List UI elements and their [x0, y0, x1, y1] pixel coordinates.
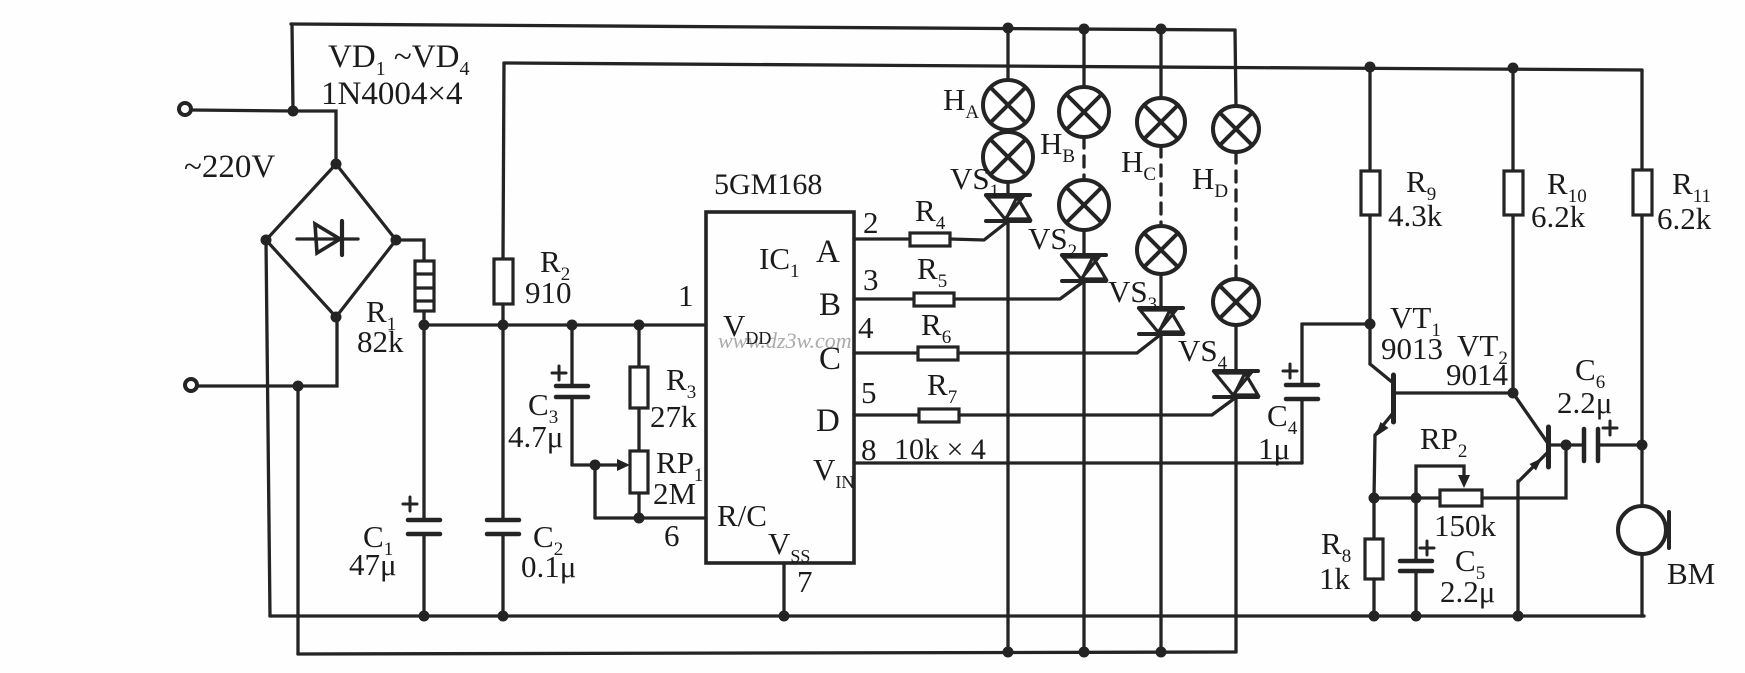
triac VS3	[1139, 308, 1183, 334]
lamp HB upper	[1059, 87, 1109, 137]
svg-text:7: 7	[797, 564, 813, 599]
node C5 / RP2 wiper	[1411, 493, 1422, 504]
svg-text:C: C	[819, 341, 841, 377]
node top rail lamp column C	[1156, 24, 1167, 35]
wire dashed lamp HB string	[1082, 137, 1085, 180]
wire top AC rail	[291, 24, 1235, 30]
svg-text:9013: 9013	[1381, 331, 1443, 366]
svg-text:6.2k: 6.2k	[1531, 199, 1586, 234]
wire VS3 column down to AC rail	[1159, 334, 1162, 652]
svg-text:4.7μ: 4.7μ	[508, 419, 563, 454]
wire lamp column B top	[1082, 29, 1085, 88]
wire IC pin8 VIN to C4	[854, 461, 1302, 464]
node wiper junction	[590, 460, 601, 471]
svg-text:1N4004×4: 1N4004×4	[321, 76, 462, 112]
wire IC pin7 VSS to ground	[782, 563, 785, 616]
wire R4 to VS1 gate	[950, 222, 1007, 240]
resistor R7	[919, 409, 959, 422]
node VS1 bottom AC rail	[1003, 647, 1014, 658]
diode VD inside bridge	[297, 221, 358, 255]
svg-text:910: 910	[525, 275, 572, 310]
svg-text:4: 4	[858, 310, 874, 345]
svg-text:1: 1	[678, 278, 694, 313]
resistor R5	[914, 293, 954, 306]
svg-text:0.1μ: 0.1μ	[521, 549, 576, 584]
svg-text:BM: BM	[1667, 556, 1715, 591]
wire R/C line to IC pin6	[595, 516, 706, 519]
node VDD at R1/C1	[419, 320, 430, 331]
node VT1 base / R10 / VT2 collector	[1508, 388, 1519, 399]
capacitor C1 47u	[403, 325, 440, 616]
node C6 / R11 / BM	[1637, 440, 1648, 451]
bridge rectifier VD1-VD4 diamond	[266, 164, 396, 317]
resistor R10 6.2k	[1504, 68, 1523, 393]
svg-text:150k: 150k	[1434, 508, 1497, 543]
wire T2 drop to bottom AC rail	[296, 386, 299, 654]
svg-text:B: B	[819, 287, 841, 323]
svg-text:1μ: 1μ	[1258, 431, 1290, 466]
capacitor C6 2.2u	[1584, 421, 1642, 461]
resistor R6	[918, 347, 958, 360]
wire junction T1 to bridge top	[293, 111, 336, 164]
transistor VT2 9014	[1513, 393, 1549, 616]
svg-text:8: 8	[861, 432, 877, 467]
svg-text:5: 5	[861, 375, 877, 410]
wire lamp column C top	[1159, 29, 1162, 99]
lamp HC lower	[1137, 226, 1185, 274]
node VT1 collector / C4	[1365, 319, 1376, 330]
svg-text:A: A	[816, 234, 840, 270]
wire lamp HA to VS1	[1006, 182, 1009, 196]
triac VS1	[986, 195, 1030, 221]
wire terminal1 to junction	[191, 110, 293, 111]
node supply rail R9	[1365, 62, 1376, 73]
node VDD at R2/C2	[498, 320, 509, 331]
wire VS2 column down to AC rail	[1082, 281, 1085, 652]
lamp HC upper	[1137, 98, 1185, 146]
wire terminal2 to junction	[197, 384, 298, 387]
node C5 ground	[1411, 611, 1422, 622]
wire VS4 column down to AC rail end	[1234, 397, 1237, 652]
node VS2 bottom AC rail	[1079, 647, 1090, 658]
triac VS2	[1062, 255, 1106, 281]
svg-text:2.2μ: 2.2μ	[1557, 385, 1612, 420]
resistor R11 6.2k	[1633, 70, 1652, 445]
wire R11/C6 node down to BM	[1640, 445, 1643, 507]
node top rail lamp column A	[1003, 23, 1014, 34]
node VDD at C3	[567, 320, 578, 331]
wire IC pin3 to R5	[854, 297, 914, 300]
svg-text:VD1 ~VD4: VD1 ~VD4	[328, 39, 469, 80]
capacitor C4 1u	[1283, 324, 1318, 463]
node base / RP2 riser	[1561, 440, 1572, 451]
node C2 ground	[498, 611, 509, 622]
svg-text:82k: 82k	[357, 324, 404, 359]
wire IC pin2 to R4	[854, 237, 910, 240]
node bridge top vertex	[331, 159, 342, 170]
wire lamp HD to VS4	[1234, 325, 1237, 372]
wire R7 to VS4 gate	[959, 398, 1235, 415]
wire VS1 anode column down to AC rail	[1006, 221, 1009, 652]
wire R6 to VS3 gate	[958, 335, 1160, 353]
svg-text:2: 2	[863, 205, 879, 240]
op-amp IC1 5GM168 box	[706, 212, 854, 563]
svg-text:27k: 27k	[650, 399, 697, 434]
wire lamp HB to VS2	[1082, 230, 1085, 256]
wire lamp column D top	[1235, 30, 1236, 107]
resistor R2 910	[494, 259, 513, 304]
node top rail lamp column B	[1079, 24, 1090, 35]
wire dashed lamp HD string	[1234, 152, 1237, 279]
node bridge right vertex	[391, 235, 402, 246]
wire IC pin5 to R7	[854, 413, 919, 416]
lamp HD upper	[1213, 106, 1259, 152]
node junction T2	[293, 381, 304, 392]
node VS3 bottom AC rail	[1156, 647, 1167, 658]
node RP1 bottom on R/C line	[634, 513, 645, 524]
wire left drop from top rail to AC terminal 1	[292, 24, 293, 111]
wire bridge right vertex to R1	[396, 240, 424, 261]
wire lamp column A top	[1006, 28, 1009, 81]
transistor VT1 9013	[1370, 324, 1394, 498]
wire bottom AC rail	[298, 652, 1236, 654]
node bridge left vertex	[261, 235, 272, 246]
potentiometer RP1 2M	[630, 451, 648, 518]
wire C3 bottom to wiper node	[572, 463, 595, 466]
wire RP2 right to VT2 base node	[1482, 445, 1566, 498]
svg-text:47μ: 47μ	[349, 547, 397, 582]
node supply rail R10	[1508, 63, 1519, 74]
node junction T1	[288, 106, 299, 117]
svg-text:D: D	[816, 403, 840, 439]
wire VT1 emitter feedback line	[1374, 496, 1440, 499]
triac VS4	[1214, 371, 1258, 397]
svg-text:2.2μ: 2.2μ	[1440, 574, 1495, 609]
svg-text:5GM168: 5GM168	[714, 168, 822, 201]
terminal AC input 1	[179, 103, 191, 115]
node C1 ground	[419, 611, 430, 622]
svg-text:2M: 2M	[653, 476, 696, 511]
resistor R9 4.3k	[1361, 67, 1380, 324]
node bridge bottom vertex	[331, 312, 342, 323]
svg-text:10k × 4: 10k × 4	[894, 433, 986, 466]
wire junction T2 to bridge bottom	[298, 318, 337, 386]
svg-text:1k: 1k	[1319, 561, 1351, 596]
node VDD at R3	[634, 320, 645, 331]
svg-text:3: 3	[863, 262, 879, 297]
node VSS ground	[779, 611, 790, 622]
node VT1 emitter / R8	[1369, 493, 1380, 504]
capacitor C5 2.2u	[1400, 498, 1434, 616]
node R8 ground	[1369, 611, 1380, 622]
svg-text:~220V: ~220V	[184, 149, 275, 185]
lamp HA lower	[983, 132, 1033, 182]
wire R2 bottom to VDD line	[501, 304, 504, 325]
wire R2 top drop from supply rail	[503, 63, 504, 259]
wire upper supply rail to R9 R10 R11	[504, 63, 1642, 70]
svg-text:6: 6	[664, 518, 680, 553]
resistor R1 82k	[415, 261, 434, 311]
lamp HB lower	[1059, 180, 1109, 230]
wire ground rail	[270, 614, 1644, 617]
wire BM bottom to ground rail	[1642, 554, 1644, 616]
wire RP2 wiper loop	[1416, 466, 1470, 498]
wire VT2 base to C6	[1550, 443, 1581, 446]
node VT2 emitter ground	[1513, 611, 1524, 622]
wire R1 bottom to VDD node	[422, 311, 425, 325]
svg-text:4.3k: 4.3k	[1388, 198, 1443, 233]
capacitor C3 4.7u	[552, 325, 588, 465]
wire wiper node down to R/C line	[593, 465, 596, 518]
capacitor C2 0.1u	[487, 325, 519, 616]
svg-text:R/C: R/C	[717, 498, 767, 533]
wire lamp HC to VS3	[1159, 274, 1162, 309]
wire C4 top to VT1 collector node	[1302, 322, 1370, 325]
resistor R4	[910, 233, 950, 246]
wire IC pin4 to R6	[854, 351, 918, 354]
resistor R8 1k	[1365, 498, 1383, 616]
wire dashed lamp HC string	[1159, 146, 1162, 226]
terminal AC input 2	[185, 379, 197, 391]
svg-text:9014: 9014	[1446, 357, 1509, 392]
svg-text:6.2k: 6.2k	[1657, 201, 1712, 236]
wire RP1 wiper arrow	[595, 459, 630, 471]
lamp HD lower	[1213, 279, 1259, 325]
microphone BM	[1618, 506, 1669, 554]
wire VT1 base to R10/VT2 node	[1395, 391, 1513, 394]
wire R5 to VS2 gate	[954, 282, 1083, 299]
resistor R3 27k	[630, 325, 648, 451]
lamp HA upper	[983, 80, 1033, 130]
potentiometer RP2 150k	[1440, 490, 1482, 506]
wire VDD horizontal line to IC pin1	[424, 323, 706, 326]
wire bridge left vertex down to ground rail	[266, 241, 270, 616]
